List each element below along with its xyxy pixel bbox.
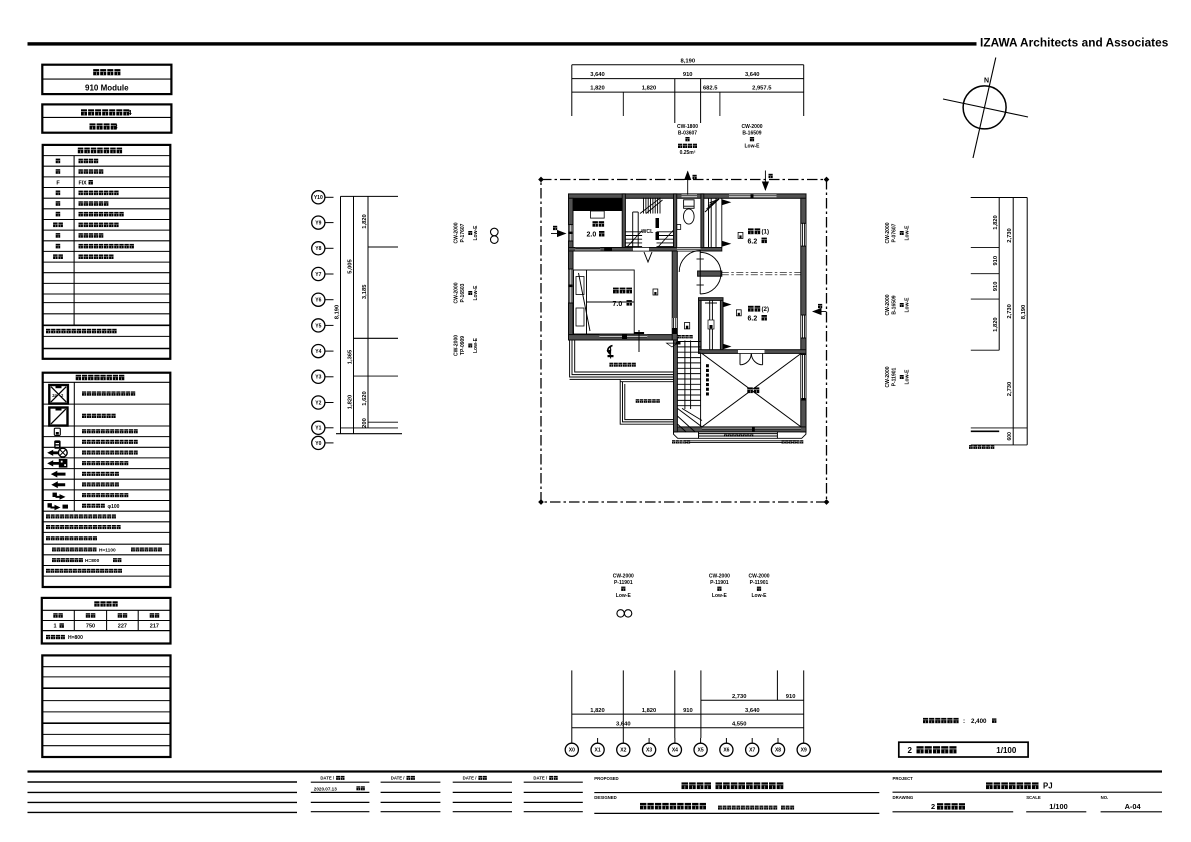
svg-text:CW-2000: CW-2000: [885, 366, 891, 387]
storage closet black strip: [573, 198, 622, 211]
flat roof box: [620, 379, 673, 424]
svg-text:PROJECT: PROJECT: [893, 776, 914, 781]
stair west wall: [674, 340, 678, 432]
svg-text:Low-E: Low-E: [473, 285, 479, 301]
svg-text:3,185: 3,185: [362, 284, 368, 299]
svg-text:Low-E: Low-E: [752, 593, 768, 599]
svg-text:7.0: 7.0: [613, 301, 623, 308]
svg-text:Y2: Y2: [315, 400, 321, 406]
symbols legend table: [43, 373, 171, 587]
svg-text:1,820: 1,820: [642, 86, 657, 92]
svg-text:Y7: Y7: [315, 272, 321, 278]
closet door arrows: [723, 302, 732, 307]
svg-text:CW-2000: CW-2000: [748, 573, 769, 579]
svg-text:2: 2: [908, 746, 913, 755]
svg-text:φ100: φ100: [108, 504, 120, 510]
svg-text:Low-E: Low-E: [905, 225, 911, 241]
top rule: [28, 42, 977, 45]
svg-text:750: 750: [86, 624, 95, 630]
table construction method: [42, 65, 171, 94]
svg-text:P-17607: P-17607: [460, 223, 466, 242]
symbol smoke detector 1: [54, 428, 60, 435]
hall door arc 1: [679, 251, 701, 273]
column divider for symbols: [73, 382, 75, 511]
stair winders: [677, 408, 702, 427]
svg-text:227: 227: [118, 624, 127, 630]
window right bedroom2: [801, 315, 805, 338]
balcony sliding door: [599, 335, 647, 338]
svg-text:CW-2000: CW-2000: [454, 335, 460, 356]
svg-text:X8: X8: [775, 748, 781, 754]
svg-text:P-11901: P-11901: [614, 580, 633, 586]
svg-text:3: 3: [114, 122, 118, 131]
svg-text:CW-2000: CW-2000: [454, 282, 460, 303]
wall above void: [699, 350, 807, 354]
svg-text:H=1100: H=1100: [99, 547, 116, 553]
svg-text:217: 217: [150, 624, 159, 630]
svg-text:B-16509: B-16509: [742, 130, 761, 136]
legend notes: [46, 514, 116, 518]
svg-text:2,730: 2,730: [1007, 382, 1013, 397]
hall-bedroom wall: [672, 251, 677, 340]
svg-text:Y9: Y9: [315, 221, 321, 227]
svg-text:682.5: 682.5: [703, 86, 718, 92]
svg-text:1,820: 1,820: [590, 86, 605, 92]
wcl stair treads right: [657, 231, 674, 233]
svg-text:6.2: 6.2: [748, 238, 758, 245]
window top bedroom1: [729, 194, 777, 198]
svg-text:(2): (2): [762, 306, 770, 313]
wcl stair treads left: [625, 231, 642, 233]
section arrow left: [551, 233, 566, 235]
title block top rule: [28, 770, 1163, 772]
svg-text:CW-2000: CW-2000: [885, 294, 891, 315]
svg-text:8,190: 8,190: [1021, 305, 1027, 320]
svg-text:8,190: 8,190: [335, 305, 341, 320]
door swing mark V: [644, 252, 652, 262]
window left storage: [569, 225, 573, 241]
drawing title box: [899, 742, 1028, 757]
svg-text:(1): (1): [762, 229, 770, 236]
symbol smoke detector 2: [55, 441, 61, 449]
svg-text:Low-E: Low-E: [712, 593, 728, 599]
wall toilet-closet: [701, 194, 704, 251]
stub wall between bedroom doors: [698, 271, 722, 276]
svg-text:2020.07.13: 2020.07.13: [314, 786, 337, 791]
bottom dimension lines: [571, 670, 573, 738]
svg-text:P-07607: P-07607: [892, 223, 898, 242]
Y grid bubbles: [312, 191, 325, 204]
void label: [747, 387, 759, 393]
svg-text:4,550: 4,550: [732, 721, 747, 727]
svg-text:3,640: 3,640: [616, 721, 631, 727]
window top toilet: [682, 194, 698, 198]
svg-text:Low-E: Low-E: [905, 369, 911, 385]
bed: [574, 270, 635, 334]
svg-text:200: 200: [362, 418, 368, 428]
svg-text:X6: X6: [723, 748, 729, 754]
svg-text:PJ: PJ: [1043, 782, 1053, 791]
svg-text:P-16503: P-16503: [460, 283, 466, 302]
svg-text:1,365: 1,365: [348, 349, 354, 364]
dashed partition line to right wall: [722, 271, 801, 273]
stair direction text vertical: [706, 364, 709, 367]
svg-text:1: 1: [53, 624, 56, 630]
svg-text:1,620: 1,620: [362, 391, 368, 406]
bedroom south wall: [569, 335, 678, 340]
left dimension lines: [340, 196, 342, 433]
svg-text:N: N: [984, 78, 989, 85]
svg-text:X4: X4: [672, 748, 678, 754]
svg-text:1,820: 1,820: [642, 708, 657, 714]
symbol supply air arrow: [51, 471, 66, 478]
symbol 24h vent box with X: [49, 385, 68, 404]
table insulation grade: [42, 104, 171, 132]
revision lines left: [28, 781, 298, 783]
window left bedroom: [569, 269, 573, 303]
storage room label: [593, 221, 605, 227]
symbol exhaust air arrow: [51, 481, 65, 488]
svg-text:CW-2000: CW-2000: [709, 573, 730, 579]
svg-text:910: 910: [993, 282, 999, 292]
small marks in wcl: [656, 218, 660, 228]
flat roof label: [636, 399, 660, 403]
svg-text:X0: X0: [569, 748, 575, 754]
svg-text::: :: [963, 718, 965, 725]
svg-text:6.2: 6.2: [748, 316, 758, 323]
svg-text:1,820: 1,820: [993, 317, 999, 332]
section arrow top B: [764, 171, 766, 191]
svg-text:CW-2000: CW-2000: [613, 573, 634, 579]
window bottom void: [702, 427, 801, 430]
door gaps in corridor wall: [575, 248, 600, 251]
svg-text:X9: X9: [801, 748, 807, 754]
svg-text:24: 24: [52, 393, 57, 398]
svg-text:910: 910: [683, 72, 693, 78]
symbol vent fan arrow: [47, 460, 59, 466]
svg-text:910: 910: [786, 694, 796, 700]
svg-text:H=800: H=800: [68, 635, 83, 641]
outer wall bottom of void: [674, 427, 807, 432]
svg-text:910: 910: [683, 708, 693, 714]
svg-text:DATE /: DATE /: [320, 776, 335, 781]
outer wall top: [569, 194, 807, 198]
svg-text:Y5: Y5: [315, 323, 321, 329]
svg-text:P-11901: P-11901: [750, 580, 769, 586]
svg-text:Low-E: Low-E: [905, 297, 911, 313]
svg-text:DESIGNED: DESIGNED: [594, 795, 616, 800]
window right void: [801, 355, 805, 401]
empty revision table: [42, 655, 170, 757]
svg-text:SCALE: SCALE: [1026, 795, 1041, 800]
svg-text:Low-E: Low-E: [473, 225, 479, 241]
eaves below void: [674, 432, 699, 438]
outer wall left: [569, 198, 574, 334]
svg-text:X3: X3: [646, 748, 652, 754]
svg-text:Y10: Y10: [314, 195, 323, 201]
svg-text:TP-0909: TP-0909: [460, 336, 466, 355]
stair top mark: [667, 343, 678, 347]
svg-text:FIX: FIX: [79, 180, 88, 186]
svg-text:2,730: 2,730: [1007, 228, 1013, 243]
bedroom1 closet sliding: [721, 198, 723, 247]
svg-text:2,957.5: 2,957.5: [752, 86, 772, 92]
hall detector symbol: [685, 323, 690, 329]
svg-text:Low-E: Low-E: [473, 337, 479, 353]
bedroom2 label: [736, 310, 741, 316]
svg-text:1,820: 1,820: [348, 395, 354, 410]
symbol pipe fan arrow: [47, 450, 60, 456]
right dimension lines: [971, 197, 999, 199]
svg-text:Y3: Y3: [315, 375, 321, 381]
site boundary dash-dot: [541, 180, 827, 503]
svg-text:NO.: NO.: [1101, 795, 1109, 800]
svg-text:600: 600: [1007, 432, 1013, 441]
door post mark: [638, 330, 640, 352]
svg-text:8,190: 8,190: [681, 58, 696, 64]
svg-text:Low-E: Low-E: [616, 593, 632, 599]
svg-text:P-11901: P-11901: [710, 580, 729, 586]
svg-text:2,400: 2,400: [971, 718, 987, 725]
balcony drain arrow: [608, 346, 613, 353]
symbol vent box with slash: [49, 408, 67, 426]
svg-text:X5: X5: [698, 748, 704, 754]
svg-text:1,820: 1,820: [993, 215, 999, 230]
svg-text:B-03607: B-03607: [678, 130, 697, 136]
svg-text:Y8: Y8: [315, 246, 321, 252]
svg-text:P-11901: P-11901: [892, 367, 898, 386]
toilet fixture: [684, 200, 695, 209]
svg-text:2: 2: [931, 802, 935, 811]
wall storage-wcl: [622, 194, 625, 251]
svg-text:CW-2000: CW-2000: [454, 222, 460, 243]
svg-text:1/100: 1/100: [1049, 802, 1068, 811]
svg-text:H=800: H=800: [85, 558, 100, 564]
svg-text:B-16509: B-16509: [892, 295, 898, 314]
wall wcl-toilet: [674, 194, 677, 251]
bedroom master label: [613, 288, 632, 294]
hall door arc 2 semicircle: [700, 252, 721, 294]
svg-text:IZAWA Architects and Associate: IZAWA Architects and Associates: [980, 36, 1169, 50]
svg-text:A-04: A-04: [1125, 802, 1142, 811]
svg-text:DATE /: DATE /: [463, 776, 478, 781]
svg-text:5,005: 5,005: [348, 258, 354, 273]
svg-text:Low-E: Low-E: [745, 144, 761, 150]
double door arcs: [739, 353, 741, 364]
svg-text:1,820: 1,820: [362, 214, 368, 229]
svg-text:3,640: 3,640: [590, 72, 605, 78]
sash legend table: [43, 145, 171, 359]
svg-text:Y1: Y1: [315, 426, 321, 432]
svg-text:2.0: 2.0: [587, 232, 597, 239]
svg-text:0.25m²: 0.25m²: [680, 150, 696, 156]
svg-text:3,640: 3,640: [745, 72, 760, 78]
stair dimension table: [42, 598, 171, 644]
symbol supply opening: [53, 493, 57, 497]
top dimension lines: [571, 65, 573, 116]
bedroom1 label: [738, 232, 743, 238]
svg-text:2,730: 2,730: [732, 694, 747, 700]
svg-text:DATE /: DATE /: [533, 776, 548, 781]
balcony railing: [570, 340, 674, 377]
svg-text:3,640: 3,640: [745, 708, 760, 714]
svg-text:X2: X2: [620, 748, 626, 754]
window right bedroom1: [801, 223, 805, 246]
north compass: [943, 58, 1028, 159]
svg-text:CW-1800: CW-1800: [677, 124, 698, 130]
svg-text:910 Module: 910 Module: [85, 84, 129, 93]
bedroom2 closet: [699, 298, 724, 301]
svg-text:2,730: 2,730: [1007, 304, 1013, 319]
section bubbles under left label: [617, 610, 624, 617]
svg-text:Y4: Y4: [315, 349, 321, 355]
svg-text:Y0: Y0: [315, 441, 321, 447]
ceiling height note: [923, 718, 959, 723]
svg-text:CW-2000: CW-2000: [885, 222, 891, 243]
svg-text:910: 910: [993, 256, 999, 266]
balcony label: [609, 363, 635, 367]
outer wall right: [801, 198, 806, 432]
section arrow right: [813, 311, 827, 313]
svg-text:DRAWING: DRAWING: [893, 795, 914, 800]
svg-text:1,820: 1,820: [590, 708, 605, 714]
main stair treads: [677, 341, 700, 343]
void cross: [702, 354, 801, 427]
eave labels: [724, 433, 753, 436]
section arrow top A: [687, 172, 689, 195]
svg-text:WCL: WCL: [642, 229, 655, 235]
svg-text:CW-2000: CW-2000: [741, 124, 762, 130]
wcl ladder hatch: [643, 198, 645, 214]
hall tiny label: [678, 335, 693, 338]
svg-text:X1: X1: [595, 748, 601, 754]
svg-text:X7: X7: [749, 748, 755, 754]
svg-text:Y6: Y6: [315, 298, 321, 304]
svg-text:1/100: 1/100: [996, 746, 1017, 755]
void double door gap: [738, 350, 765, 353]
symbol supply opening dia100: [48, 503, 52, 507]
X grid bubbles: [571, 738, 573, 743]
svg-text:DATE /: DATE /: [391, 776, 406, 781]
svg-text:PROPOSED: PROPOSED: [594, 776, 618, 781]
corridor wall horizontal: [569, 248, 722, 252]
